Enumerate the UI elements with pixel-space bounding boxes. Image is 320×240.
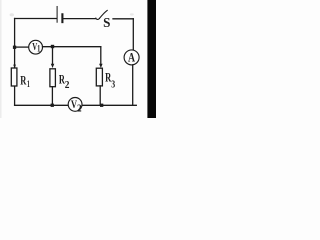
voltmeter V2 circle <box>68 98 82 112</box>
svg-text:2: 2 <box>77 103 82 114</box>
wire middle rail to R3 corner <box>43 46 101 48</box>
switch S contact hook <box>96 18 100 19</box>
left edge shading <box>0 0 2 118</box>
resistor R3 box <box>96 68 102 86</box>
svg-text:3: 3 <box>111 79 115 90</box>
wire left rail <box>14 19 16 106</box>
scan smudge above right corner <box>130 13 134 15</box>
wire right branch lower <box>132 65 134 105</box>
switch S blade <box>100 10 108 18</box>
svg-text:1: 1 <box>37 44 41 54</box>
resistor R1 box <box>11 68 17 86</box>
scan smudge top-left <box>10 13 14 16</box>
current arrow above R3 <box>99 64 103 68</box>
wire drop to R3 <box>100 47 102 64</box>
svg-text:2: 2 <box>65 80 70 91</box>
wire bottom rail left segment <box>15 104 69 106</box>
ammeter A circle <box>124 50 139 65</box>
black sidebar <box>147 0 156 118</box>
current arrow above R1 <box>13 65 16 68</box>
battery long plate <box>56 7 58 23</box>
current arrow above R2 <box>51 64 55 68</box>
svg-text:1: 1 <box>27 79 30 89</box>
wire top rail middle segment <box>64 18 96 20</box>
resistor R2 box <box>50 69 56 87</box>
wire drop to R2 <box>52 47 54 64</box>
svg-text:A: A <box>128 49 135 64</box>
background <box>0 0 156 118</box>
wire R3 bottom stub <box>99 86 101 105</box>
svg-text:S: S <box>103 16 110 31</box>
junction node bottom rail / R2 <box>51 104 54 107</box>
wire top rail left segment <box>15 18 57 20</box>
wire bottom rail right segment <box>82 104 136 106</box>
wire R2 bottom stub <box>51 87 53 106</box>
voltmeter V1 circle <box>29 40 43 54</box>
wire V1 row left <box>15 46 29 48</box>
wire right branch upper <box>132 19 134 50</box>
wire top rail right segment <box>113 18 133 20</box>
battery short plate <box>61 14 63 22</box>
junction node left rail / V1 <box>13 46 16 49</box>
junction node bottom rail / R3 <box>100 104 103 107</box>
junction node middle rail / R2 <box>51 45 54 48</box>
